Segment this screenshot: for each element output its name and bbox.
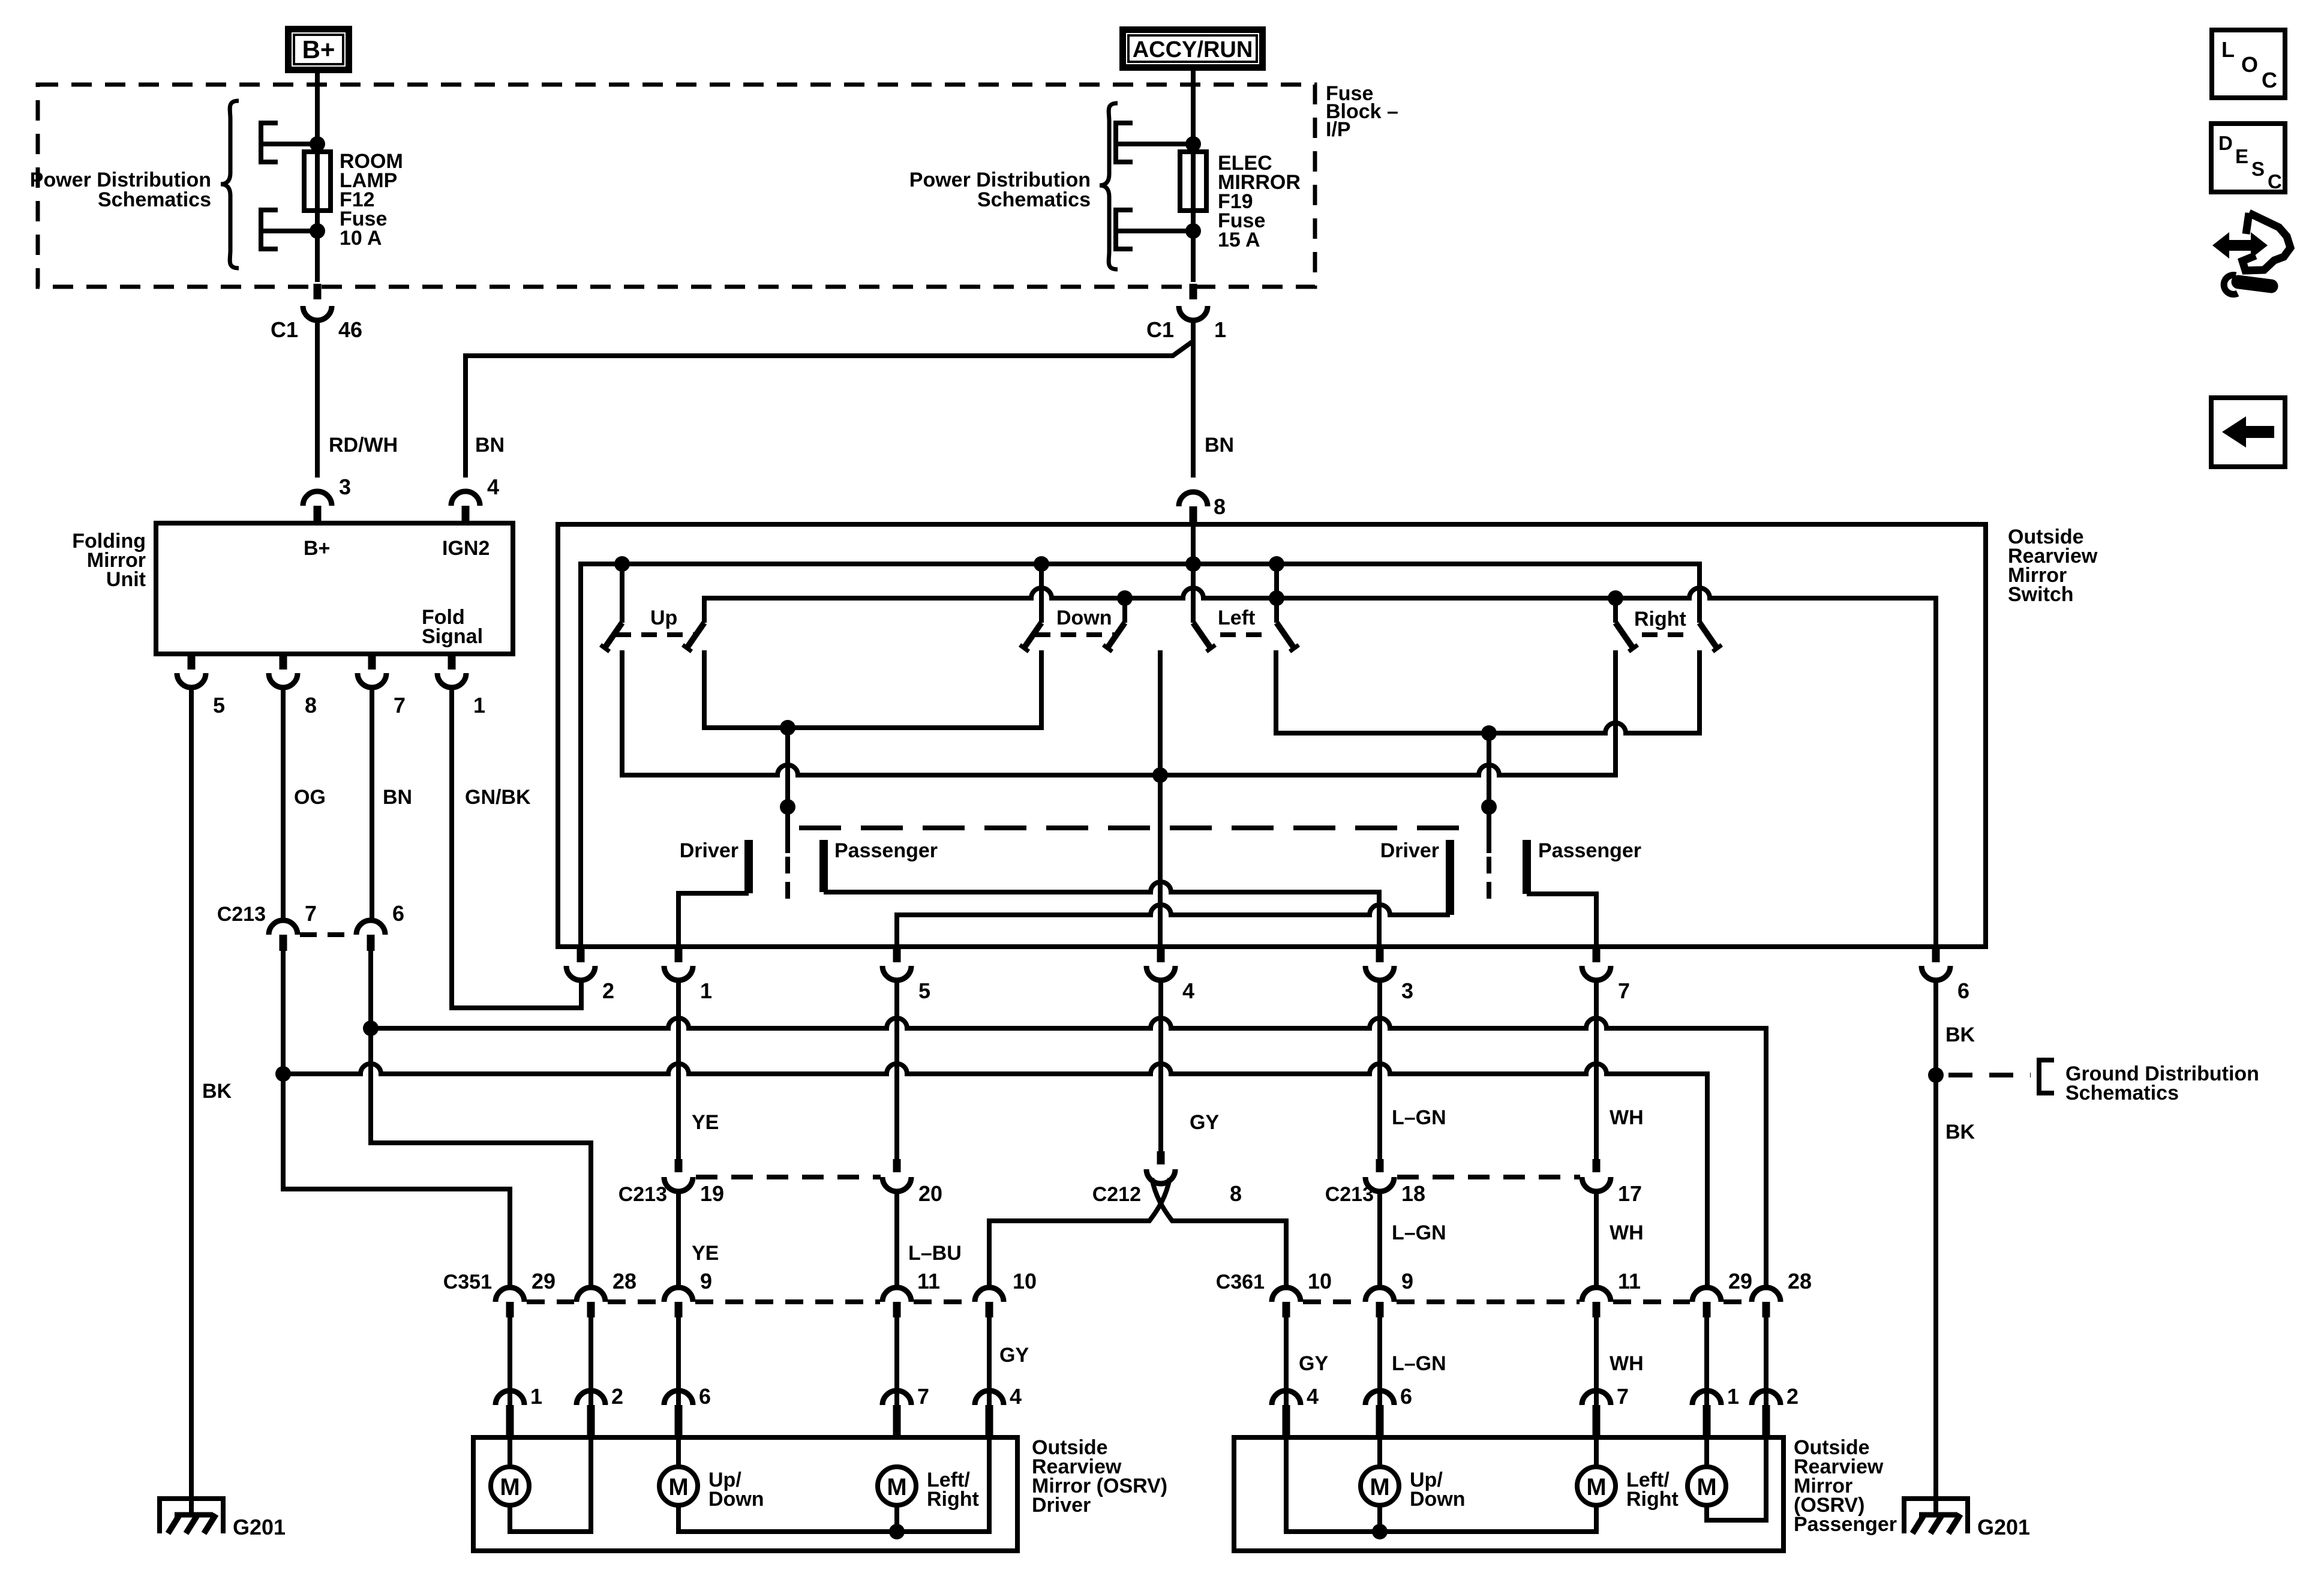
svg-text:GY: GY xyxy=(999,1344,1029,1367)
svg-text:7: 7 xyxy=(917,1384,929,1409)
svg-text:8: 8 xyxy=(1214,494,1226,519)
svg-text:Right: Right xyxy=(1634,608,1686,631)
LR selector Passenger contact to pin 7 xyxy=(1527,839,1641,947)
svg-text:RD/WH: RD/WH xyxy=(329,434,398,457)
node B+ terminal box xyxy=(285,26,352,73)
switch pin 6 connector xyxy=(1921,947,1969,1003)
svg-text:C212: C212 xyxy=(1092,1183,1141,1206)
junction xyxy=(1185,136,1201,152)
svg-text:4: 4 xyxy=(1307,1384,1319,1409)
svg-text:29: 29 xyxy=(532,1269,556,1293)
wire GN/BK folding pin1 to switch pin2 xyxy=(452,688,581,1008)
junction LR output tap xyxy=(1481,725,1497,741)
ground G201 (right) xyxy=(1902,1499,2030,1539)
motor M passenger left/right xyxy=(1577,1437,1679,1511)
junction bus/Down xyxy=(1034,556,1049,572)
fuse F19 body xyxy=(1180,152,1206,211)
motor M driver left/right xyxy=(878,1467,979,1539)
svg-text:17: 17 xyxy=(1618,1181,1642,1206)
svg-text:GN/BK: GN/BK xyxy=(465,786,531,809)
label Fuse Block - I/P xyxy=(1326,82,1398,141)
icon door adjust wrench xyxy=(2212,213,2290,295)
svg-text:D: D xyxy=(2218,132,2233,154)
switch pin 5 connector xyxy=(882,947,930,1003)
svg-text:1: 1 xyxy=(1214,317,1226,342)
svg-text:BK: BK xyxy=(202,1080,232,1103)
brace left xyxy=(221,101,239,268)
svg-text:Driver: Driver xyxy=(1032,1494,1091,1517)
junction BK ground tap xyxy=(1928,1067,1944,1083)
wire OG branch to passenger mirror pin 1 xyxy=(283,1064,1707,1287)
wire C361-29 to passenger pin 1 xyxy=(1704,1317,1709,1405)
motor M driver up/down xyxy=(659,1437,989,1532)
switch pin 2 connector xyxy=(566,947,614,1003)
svg-text:Driver: Driver xyxy=(680,839,738,862)
svg-text:4: 4 xyxy=(487,475,499,499)
svg-text:E: E xyxy=(2235,145,2248,167)
svg-text:Left: Left xyxy=(1218,607,1255,629)
junction xyxy=(1185,223,1201,239)
svg-text:5: 5 xyxy=(918,978,930,1003)
Outside Rearview Mirror (OSRV) Passenger box xyxy=(1234,1437,1783,1551)
svg-text:BN: BN xyxy=(1205,434,1234,457)
svg-text:M: M xyxy=(668,1474,688,1500)
svg-text:Passenger: Passenger xyxy=(1794,1513,1897,1536)
Outside Rearview Mirror Switch box xyxy=(558,524,1986,947)
svg-text:M: M xyxy=(1697,1474,1716,1500)
junction UD output tap xyxy=(780,720,795,736)
svg-text:M: M xyxy=(887,1474,906,1500)
svg-text:2: 2 xyxy=(611,1384,623,1409)
svg-text:GY: GY xyxy=(1299,1352,1328,1375)
switch Down left blade xyxy=(1020,564,1041,652)
driver mirror pin 1 connector xyxy=(496,1384,542,1437)
connector C351 pin 28 xyxy=(527,1269,636,1317)
connector C351 pin 11 xyxy=(695,1269,940,1317)
connector C351 pin 29 xyxy=(443,1269,556,1317)
svg-text:GY: GY xyxy=(1190,1111,1219,1134)
label Power Distribution Schematics (right) xyxy=(909,169,1091,211)
connector C361 pin 9 xyxy=(1303,1269,1413,1317)
svg-text:3: 3 xyxy=(339,475,351,499)
folding unit pin 3 connector xyxy=(303,475,351,523)
ground distribution tap xyxy=(1948,1060,2259,1104)
wire BN folding pin7 to C213-6 xyxy=(370,688,374,920)
node ACCY/RUN terminal box xyxy=(1119,26,1266,71)
driver mirror pin 7 connector xyxy=(882,1384,929,1437)
junction return/LeftRight xyxy=(1269,590,1284,606)
svg-text:M: M xyxy=(1370,1474,1389,1500)
wire return bus (second, inside switch) to pin 6 xyxy=(704,588,1936,947)
wire BN branch to folding unit pin 4 xyxy=(466,342,1192,478)
svg-text:11: 11 xyxy=(1618,1269,1641,1293)
icon DESC xyxy=(2211,124,2285,193)
svg-text:WH: WH xyxy=(1610,1221,1644,1244)
wire BK folding pin5 to G201 xyxy=(189,688,194,1515)
label Folding Mirror Unit xyxy=(72,530,146,591)
svg-text:1: 1 xyxy=(1727,1384,1739,1409)
wire GY to switch pin 4 xyxy=(1158,650,1163,947)
svg-text:BN: BN xyxy=(383,786,412,809)
svg-text:WH: WH xyxy=(1610,1352,1644,1375)
connector C361 pin 28 xyxy=(1724,1269,1812,1317)
svg-text:2: 2 xyxy=(602,978,614,1003)
folding unit pin 7 connector xyxy=(358,654,406,718)
wire WH switch pin7 to C213-17 xyxy=(1594,980,1599,1159)
switch Up left blade xyxy=(600,564,622,652)
switch Right right blade xyxy=(1700,623,1722,652)
wire pin8 feed into switch xyxy=(1191,524,1196,623)
junction common/GY xyxy=(1152,767,1168,783)
wire B+ to C1-46 xyxy=(315,73,320,282)
junction bus/pin8 xyxy=(1185,556,1201,572)
svg-text:M: M xyxy=(1586,1474,1606,1500)
label Power Distribution Schematics (left) xyxy=(30,169,211,211)
svg-text:7: 7 xyxy=(394,693,406,718)
svg-text:6: 6 xyxy=(392,901,404,926)
svg-text:19: 19 xyxy=(700,1181,724,1206)
svg-text:M: M xyxy=(500,1474,520,1500)
wire C361-28 to passenger pin 2 xyxy=(1764,1317,1768,1405)
connector C351 pin 10 xyxy=(914,1269,1037,1317)
fuse F19 lower tap clamp xyxy=(1116,210,1193,249)
wire GY split to driver C351-10 xyxy=(989,1178,1170,1287)
passenger mirror pin 2 connector xyxy=(1752,1384,1798,1437)
svg-text:BN: BN xyxy=(475,434,505,457)
svg-text:15 A: 15 A xyxy=(1218,229,1260,251)
wire OG below C213-7 to C351-29 xyxy=(283,951,510,1287)
svg-text:Right: Right xyxy=(1626,1488,1679,1511)
LR selector stem xyxy=(1487,733,1491,853)
junction return/DownRight xyxy=(1117,590,1133,606)
connector C1 pin 1 xyxy=(1146,284,1226,342)
svg-text:B+: B+ xyxy=(302,35,335,64)
svg-text:G201: G201 xyxy=(1977,1515,2030,1539)
wire L-BU C213-20 to C351-11 xyxy=(894,1191,899,1287)
connector C213 pin 7 xyxy=(217,901,317,951)
wire L-GN switch pin3 to C213-18 xyxy=(1377,980,1382,1159)
svg-text:10: 10 xyxy=(1013,1269,1037,1293)
svg-text:C: C xyxy=(2262,68,2277,92)
svg-text:Schematics: Schematics xyxy=(2065,1082,2179,1104)
folding unit pin 1 connector xyxy=(437,654,485,718)
svg-text:C213: C213 xyxy=(217,903,266,926)
wire YE switch pin1 to C213-19 xyxy=(676,980,681,1159)
svg-text:7: 7 xyxy=(1617,1384,1629,1409)
svg-text:YE: YE xyxy=(692,1242,719,1265)
UD selector Driver contact to pin 1 xyxy=(678,839,749,947)
svg-text:L–GN: L–GN xyxy=(1392,1106,1446,1129)
fuse block I/P dashed boundary xyxy=(38,85,1315,287)
passenger mirror pin 7 connector xyxy=(1582,1384,1629,1437)
icon back arrow xyxy=(2211,398,2285,467)
svg-text:L–GN: L–GN xyxy=(1392,1352,1446,1375)
mechanical link Left xyxy=(1220,632,1272,637)
svg-text:10 A: 10 A xyxy=(340,227,382,250)
svg-text:10: 10 xyxy=(1308,1269,1332,1293)
svg-text:1: 1 xyxy=(473,693,485,718)
wire mirror common link xyxy=(622,650,1616,775)
connector C361 pin 10 xyxy=(1216,1269,1332,1317)
connector C1 pin 46 xyxy=(271,284,362,342)
svg-text:2: 2 xyxy=(1786,1384,1798,1409)
svg-text:YE: YE xyxy=(692,1111,719,1134)
folding unit pin 5 connector xyxy=(177,654,225,718)
svg-text:7: 7 xyxy=(1618,978,1630,1003)
svg-text:Passenger: Passenger xyxy=(834,839,938,862)
svg-text:OG: OG xyxy=(294,786,326,809)
wire GY C361-10 to passenger pin 4 xyxy=(1284,1317,1289,1405)
svg-text:Right: Right xyxy=(927,1488,979,1511)
svg-text:Down: Down xyxy=(708,1488,764,1511)
svg-text:Down: Down xyxy=(1410,1488,1466,1511)
switch pin 8 connector (top) xyxy=(1179,492,1226,524)
svg-text:C1: C1 xyxy=(271,317,298,342)
svg-text:18: 18 xyxy=(1401,1181,1425,1206)
passenger common interior wire xyxy=(1286,1437,1596,1532)
mechanical link selectors xyxy=(799,825,1477,830)
svg-text:Down: Down xyxy=(1056,607,1112,629)
connector C361 pin 29 xyxy=(1613,1269,1752,1317)
svg-text:O: O xyxy=(2241,52,2258,77)
svg-text:Switch: Switch xyxy=(2008,583,2074,606)
svg-text:C1: C1 xyxy=(1146,317,1174,342)
mechanical link Up xyxy=(615,632,697,637)
svg-text:Unit: Unit xyxy=(106,568,146,591)
wires C351 row to driver mirror xyxy=(508,1317,512,1405)
wire switch pin5 to C213-20 xyxy=(894,980,899,1159)
UD selector stem xyxy=(785,728,790,853)
svg-text:B+: B+ xyxy=(304,537,330,560)
svg-text:Up: Up xyxy=(650,607,677,629)
svg-text:Passenger: Passenger xyxy=(1538,839,1641,862)
UD selector Passenger contact to pin 3 xyxy=(824,839,1379,947)
ground G201 (left) xyxy=(157,1499,286,1539)
switch Left right blade xyxy=(1277,564,1299,652)
motor M passenger up/down xyxy=(1361,1437,1466,1532)
folding unit pin 4 connector xyxy=(451,475,499,523)
label ELEC MIRROR F19 Fuse 15 A xyxy=(1218,152,1301,251)
label ROOM LAMP F12 Fuse 10 A xyxy=(340,150,403,250)
Folding Mirror Unit box xyxy=(156,523,513,654)
svg-text:C213: C213 xyxy=(618,1183,667,1206)
driver mirror pin 6 connector xyxy=(664,1384,711,1437)
svg-text:G201: G201 xyxy=(233,1515,286,1539)
switch Right left blade xyxy=(1616,598,1638,652)
svg-text:1: 1 xyxy=(700,978,712,1003)
switch Down right blade xyxy=(1103,598,1125,652)
wire BN below C213-6 to C351-28 xyxy=(371,951,591,1287)
wire WH C361-11 to passenger pin 7 xyxy=(1594,1317,1599,1405)
passenger mirror pin 4 connector xyxy=(1272,1384,1319,1437)
switch pin 4 connector xyxy=(1146,947,1194,1003)
svg-text:S: S xyxy=(2251,158,2265,180)
LR selector Driver contact to pin 5 xyxy=(897,839,1450,947)
svg-text:IGN2: IGN2 xyxy=(442,537,490,560)
svg-text:6: 6 xyxy=(1400,1384,1412,1409)
svg-text:BK: BK xyxy=(1945,1023,1975,1046)
wire GY switch pin4 to C212-8 xyxy=(1158,980,1163,1151)
svg-text:28: 28 xyxy=(1788,1269,1812,1293)
fuse F12 lower tap clamp xyxy=(261,210,317,249)
svg-text:9: 9 xyxy=(700,1269,712,1293)
connector C212 pin 8 xyxy=(1092,1151,1242,1206)
fuse F12 upper tap clamp xyxy=(261,123,317,162)
svg-text:11: 11 xyxy=(917,1269,940,1293)
wire left/right output link xyxy=(1276,650,1700,733)
motor M driver fold xyxy=(491,1437,591,1532)
svg-text:8: 8 xyxy=(1230,1181,1242,1206)
svg-text:6: 6 xyxy=(699,1384,711,1409)
wire RD/WH C1-46 to folding unit pin 3 xyxy=(315,320,320,478)
brace right xyxy=(1100,103,1118,269)
svg-text:Schematics: Schematics xyxy=(977,188,1091,211)
svg-text:Signal: Signal xyxy=(422,625,483,648)
svg-text:6: 6 xyxy=(1957,978,1969,1003)
switch pin 1 connector xyxy=(664,947,712,1003)
svg-text:28: 28 xyxy=(612,1269,636,1293)
folding unit pin 8 connector xyxy=(269,654,317,718)
wire GY C351-10 to driver pin 4 xyxy=(987,1317,992,1405)
svg-text:L: L xyxy=(2221,37,2235,62)
svg-text:WH: WH xyxy=(1610,1106,1644,1129)
wire WH C213-17 to C361-11 xyxy=(1594,1191,1599,1287)
svg-text:9: 9 xyxy=(1401,1269,1413,1293)
switch pin 7 connector xyxy=(1582,947,1630,1003)
driver mirror pin 4 connector xyxy=(975,1384,1022,1437)
icon LOC xyxy=(2212,30,2285,98)
junction bus/Up xyxy=(614,556,630,572)
svg-text:ACCY/RUN: ACCY/RUN xyxy=(1133,37,1253,62)
wire up/down output link xyxy=(704,650,1041,728)
svg-text:20: 20 xyxy=(918,1181,942,1206)
junction on BN wire xyxy=(363,1020,379,1036)
wire BN branch to passenger mirror pin 2 xyxy=(371,1018,1766,1287)
svg-text:Driver: Driver xyxy=(1380,839,1439,862)
connector C213 pin 20 xyxy=(696,1159,942,1206)
svg-text:BK: BK xyxy=(1945,1121,1975,1143)
svg-text:1: 1 xyxy=(530,1384,542,1409)
connector C213 pin 19 xyxy=(618,1159,724,1206)
junction xyxy=(310,136,325,152)
passenger mirror pin 6 connector xyxy=(1365,1384,1412,1437)
svg-text:L–BU: L–BU xyxy=(908,1242,962,1265)
mechanical link Right xyxy=(1642,632,1694,637)
junction return/RightLeft xyxy=(1608,590,1623,606)
svg-text:8: 8 xyxy=(305,693,317,718)
driver mirror pin 2 connector xyxy=(577,1384,623,1437)
svg-text:4: 4 xyxy=(1010,1384,1022,1409)
svg-text:C: C xyxy=(2268,170,2282,193)
fuse F19 upper tap clamp xyxy=(1116,123,1193,162)
svg-text:L–GN: L–GN xyxy=(1392,1221,1446,1244)
junction on OG wire xyxy=(275,1066,291,1082)
svg-text:C361: C361 xyxy=(1216,1271,1265,1293)
svg-text:C351: C351 xyxy=(443,1271,492,1293)
svg-text:46: 46 xyxy=(338,317,362,342)
svg-text:3: 3 xyxy=(1401,978,1413,1003)
switch Up right blade xyxy=(683,623,704,652)
connector C213 pin 18 xyxy=(1325,1159,1425,1206)
mechanical link Down xyxy=(1035,632,1116,637)
junction xyxy=(310,223,325,239)
wire BN C1-1 down to switch pin 8 xyxy=(1191,320,1196,478)
wire ACCY/RUN to C1-1 xyxy=(1191,71,1196,282)
connector C351 pin 9 xyxy=(608,1269,712,1317)
wire L-GN C361-9 to passenger pin 6 xyxy=(1377,1317,1382,1405)
svg-text:7: 7 xyxy=(305,901,317,926)
switch pin 3 connector xyxy=(1365,947,1413,1003)
passenger mirror pin 1 connector xyxy=(1692,1384,1739,1437)
wire BK switch pin6 to G201 xyxy=(1933,980,1938,1515)
svg-text:Schematics: Schematics xyxy=(98,188,211,211)
connector C361 pin 11 xyxy=(1397,1269,1641,1317)
connector C213 pin 17 xyxy=(1397,1159,1642,1206)
svg-text:5: 5 xyxy=(213,693,225,718)
wire power bus (top, inside switch) xyxy=(581,564,1700,947)
label Outside Rearview Mirror Switch xyxy=(2008,526,2098,606)
fuse F12 body xyxy=(304,152,331,211)
svg-text:29: 29 xyxy=(1728,1269,1752,1293)
wire YE C213-19 to C351-9 xyxy=(676,1191,681,1287)
Outside Rearview Mirror (OSRV) Driver box xyxy=(473,1437,1017,1551)
motor M passenger fold xyxy=(1688,1437,1766,1520)
wire OG folding pin8 to C213-7 xyxy=(281,688,286,920)
svg-text:I/P: I/P xyxy=(1326,118,1351,141)
switch Left left blade xyxy=(1193,623,1215,652)
connector C213 pin 6 xyxy=(300,901,404,951)
wire L-GN C213-18 to C361-9 xyxy=(1377,1191,1382,1287)
wire GY split to passenger C361-10 xyxy=(1152,1178,1286,1287)
svg-text:4: 4 xyxy=(1182,978,1194,1003)
junction bus/Left xyxy=(1269,556,1284,572)
